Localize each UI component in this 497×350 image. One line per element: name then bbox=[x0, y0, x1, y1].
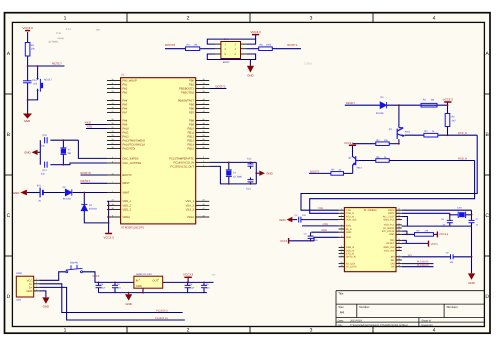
svg-text:7: 7 bbox=[112, 181, 113, 184]
svg-text:GND: GND bbox=[247, 74, 253, 78]
svg-text:C: C bbox=[7, 213, 11, 219]
svg-text:PA5: PA5 bbox=[122, 103, 127, 106]
svg-text:4: 4 bbox=[36, 288, 37, 291]
svg-text:PA11: PA11 bbox=[122, 131, 129, 134]
svg-text:4K7: 4K7 bbox=[452, 119, 457, 122]
svg-text:PB8: PB8 bbox=[189, 119, 195, 122]
svg-text:7: 7 bbox=[341, 230, 342, 233]
svg-text:VCC3.3: VCC3.3 bbox=[443, 98, 453, 102]
svg-text:PB6: PB6 bbox=[189, 107, 195, 110]
svg-text:9: 9 bbox=[112, 214, 113, 217]
svg-text:48: 48 bbox=[111, 207, 113, 210]
svg-text:VDDA: VDDA bbox=[122, 216, 130, 219]
svg-text:PA12: PA12 bbox=[122, 135, 129, 138]
svg-text:41: 41 bbox=[202, 102, 204, 105]
svg-text:GND: GND bbox=[346, 231, 352, 234]
svg-text:22: 22 bbox=[398, 229, 400, 232]
svg-text:GND_PLL: GND_PLL bbox=[383, 218, 395, 221]
svg-text:GND: GND bbox=[24, 151, 30, 155]
svg-text:14: 14 bbox=[398, 254, 400, 257]
svg-text:PC15/OSC32_OUT: PC15/OSC32_OUT bbox=[171, 165, 195, 168]
svg-text:BOOT1: BOOT1 bbox=[287, 43, 298, 47]
svg-text:F 14: F 14 bbox=[66, 28, 71, 31]
svg-text:RXD_N: RXD_N bbox=[458, 157, 467, 160]
svg-text:PL2303 D-: PL2303 D- bbox=[156, 309, 169, 312]
svg-text:26: 26 bbox=[202, 138, 204, 141]
svg-text:RESET: RESET bbox=[81, 179, 91, 183]
svg-text:PB0: PB0 bbox=[189, 79, 195, 82]
svg-text:VDD_3: VDD_3 bbox=[122, 208, 131, 211]
svg-text:VBAT: VBAT bbox=[122, 191, 129, 194]
svg-text:31: 31 bbox=[111, 126, 113, 129]
svg-text:45: 45 bbox=[202, 118, 204, 121]
svg-text:GND: GND bbox=[321, 229, 327, 232]
svg-text:TXD: TXD bbox=[318, 207, 323, 210]
svg-text:2: 2 bbox=[187, 328, 190, 334]
svg-text:3: 3 bbox=[139, 278, 140, 281]
svg-text:22: 22 bbox=[202, 130, 204, 133]
svg-text:43: 43 bbox=[202, 110, 204, 113]
svg-text:PA8: PA8 bbox=[122, 119, 127, 122]
svg-text:24: 24 bbox=[398, 222, 400, 225]
svg-text:PB14: PB14 bbox=[187, 143, 194, 146]
svg-text:35: 35 bbox=[202, 203, 204, 206]
svg-text:17: 17 bbox=[111, 110, 113, 113]
svg-text:13: 13 bbox=[398, 258, 400, 261]
svg-text:19: 19 bbox=[202, 82, 204, 85]
svg-text:16: 16 bbox=[398, 245, 400, 248]
svg-text:36: 36 bbox=[111, 203, 113, 206]
svg-text:D: D bbox=[7, 294, 11, 300]
svg-text:1: 1 bbox=[64, 328, 67, 334]
svg-text:GND: GND bbox=[468, 281, 474, 285]
svg-text:VSS_1: VSS_1 bbox=[186, 200, 195, 203]
svg-text:VCC5: VCC5 bbox=[280, 240, 288, 243]
svg-text:11: 11 bbox=[112, 82, 114, 85]
svg-text:29: 29 bbox=[111, 118, 113, 121]
svg-text:4: 4 bbox=[341, 217, 342, 220]
svg-text:VDD_1: VDD_1 bbox=[122, 200, 131, 203]
svg-text:100k: 100k bbox=[266, 44, 272, 47]
svg-text:GND: GND bbox=[125, 302, 131, 306]
svg-text:Date:: Date: bbox=[338, 319, 344, 322]
svg-text:1N4: 1N4 bbox=[96, 28, 101, 31]
svg-text:9014: 9014 bbox=[405, 130, 411, 133]
svg-text:38: 38 bbox=[111, 146, 113, 149]
svg-text:PB10: PB10 bbox=[187, 127, 194, 130]
svg-text:SW-PB: SW-PB bbox=[70, 262, 78, 265]
svg-text:22p: 22p bbox=[41, 173, 46, 176]
svg-text:23: 23 bbox=[202, 199, 204, 202]
svg-text:12: 12 bbox=[111, 86, 113, 89]
svg-text:GND: GND bbox=[26, 290, 32, 293]
svg-text:Q1706W_: Q1706W_ bbox=[49, 40, 60, 43]
svg-text:VCC3.3: VCC3.3 bbox=[439, 233, 449, 236]
svg-text:10uF: 10uF bbox=[100, 286, 106, 289]
svg-text:21: 21 bbox=[398, 232, 400, 235]
svg-text:BOOT0: BOOT0 bbox=[310, 170, 320, 173]
svg-text:DP: DP bbox=[391, 266, 395, 269]
svg-text:3: 3 bbox=[310, 328, 313, 334]
svg-text:2: 2 bbox=[187, 16, 190, 22]
svg-text:C:\Users\Admin\Desktop\ STM32: C:\Users\Admin\Desktop\ STM32f103c8t6.Sc… bbox=[350, 324, 409, 327]
svg-text:19: 19 bbox=[341, 261, 343, 264]
svg-text:A4: A4 bbox=[340, 311, 344, 315]
svg-text:6: 6 bbox=[112, 160, 113, 163]
svg-text:37: 37 bbox=[111, 142, 113, 145]
svg-text:OSC_IN/PD0: OSC_IN/PD0 bbox=[122, 157, 138, 160]
svg-text:RESET: RESET bbox=[346, 102, 355, 105]
svg-text:F 34: F 34 bbox=[56, 32, 61, 35]
svg-text:21: 21 bbox=[202, 126, 204, 129]
svg-text:30: 30 bbox=[398, 261, 400, 264]
svg-text:46: 46 bbox=[202, 122, 204, 125]
svg-text:Sheet of: Sheet of bbox=[421, 319, 431, 322]
svg-text:Number: Number bbox=[359, 305, 369, 309]
svg-text:6: 6 bbox=[341, 227, 342, 230]
svg-text:BOOT1: BOOT1 bbox=[216, 84, 227, 88]
svg-text:42: 42 bbox=[202, 106, 204, 109]
svg-text:PL2303 D+: PL2303 D+ bbox=[155, 317, 169, 320]
svg-text:33: 33 bbox=[111, 134, 113, 137]
svg-text:SHTD_N: SHTD_N bbox=[346, 256, 356, 259]
svg-text:2: 2 bbox=[158, 278, 159, 281]
svg-text:PA7: PA7 bbox=[122, 111, 127, 114]
svg-text:USB: USB bbox=[16, 299, 21, 302]
svg-text:18: 18 bbox=[398, 238, 400, 241]
svg-text:10uF: 10uF bbox=[189, 286, 195, 289]
svg-text:VDD_325: VDD_325 bbox=[346, 218, 357, 221]
svg-text:PA2: PA2 bbox=[122, 87, 127, 90]
svg-text:C: C bbox=[485, 213, 489, 219]
svg-text:BOOT0: BOOT0 bbox=[81, 171, 92, 175]
svg-text:3V: 3V bbox=[38, 200, 41, 203]
svg-text:14: 14 bbox=[111, 98, 113, 101]
svg-text:47: 47 bbox=[202, 207, 204, 210]
svg-text:16: 16 bbox=[111, 106, 113, 109]
svg-text:PB12: PB12 bbox=[187, 135, 194, 138]
svg-text:5: 5 bbox=[341, 223, 342, 226]
svg-text:GND: GND bbox=[279, 218, 285, 222]
svg-text:8M: 8M bbox=[68, 152, 71, 155]
svg-text:EE_DATA: EE_DATA bbox=[346, 266, 357, 269]
svg-text:VCC3.3: VCC3.3 bbox=[251, 30, 262, 34]
svg-text:8: 8 bbox=[341, 235, 342, 238]
svg-text:11: 11 bbox=[341, 251, 343, 254]
svg-text:23: 23 bbox=[398, 226, 400, 229]
svg-text:GND: GND bbox=[389, 233, 395, 236]
svg-text:PB5: PB5 bbox=[189, 103, 195, 106]
svg-text:PB4/JNTRST: PB4/JNTRST bbox=[178, 99, 194, 102]
svg-text:30: 30 bbox=[111, 122, 113, 125]
svg-text:1: 1 bbox=[36, 278, 37, 281]
svg-text:PB9: PB9 bbox=[189, 123, 195, 126]
svg-text:12: 12 bbox=[341, 254, 343, 257]
svg-text:29: 29 bbox=[398, 264, 400, 267]
svg-text:3: 3 bbox=[203, 160, 204, 163]
svg-text:USB1: USB1 bbox=[16, 272, 23, 275]
svg-text:PA1: PA1 bbox=[122, 83, 127, 86]
svg-text:VDD_3V3: VDD_3V3 bbox=[384, 249, 395, 252]
svg-text:PC13/TAMPER-RTC: PC13/TAMPER-RTC bbox=[169, 157, 194, 160]
svg-text:1: 1 bbox=[112, 190, 113, 193]
svg-text:1: 1 bbox=[64, 16, 67, 22]
svg-text:Title: Title bbox=[338, 292, 344, 296]
svg-text:32: 32 bbox=[111, 130, 113, 133]
svg-text:IN4148: IN4148 bbox=[376, 112, 384, 115]
svg-text:micap: micap bbox=[58, 37, 65, 40]
svg-text:3: 3 bbox=[310, 16, 313, 22]
svg-text:3: 3 bbox=[36, 285, 37, 288]
svg-text:44: 44 bbox=[111, 172, 113, 175]
svg-text:PC14/OSC32_IN: PC14/OSC32_IN bbox=[174, 161, 195, 164]
svg-text:2: 2 bbox=[341, 211, 342, 214]
svg-text:4: 4 bbox=[433, 328, 436, 334]
svg-text:27: 27 bbox=[202, 142, 204, 145]
svg-text:28: 28 bbox=[398, 208, 400, 211]
svg-text:10: 10 bbox=[111, 78, 113, 81]
svg-text:25: 25 bbox=[398, 217, 400, 220]
svg-text:GND: GND bbox=[24, 119, 30, 123]
svg-text:9014: 9014 bbox=[357, 167, 363, 170]
svg-text:22p: 22p bbox=[41, 145, 46, 148]
svg-text:GND: GND bbox=[43, 304, 49, 308]
svg-text:10: 10 bbox=[341, 248, 343, 251]
svg-text:4: 4 bbox=[203, 164, 204, 167]
svg-text:RESET: RESET bbox=[386, 242, 395, 245]
svg-text:PB2/BOOT1: PB2/BOOT1 bbox=[179, 87, 194, 90]
svg-text:GND: GND bbox=[266, 172, 272, 176]
svg-text:BT1: BT1 bbox=[37, 184, 42, 187]
svg-text:PA14/TCK/SWCLK: PA14/TCK/SWCLK bbox=[122, 143, 145, 146]
svg-text:C14: C14 bbox=[32, 79, 37, 82]
svg-text:26: 26 bbox=[398, 214, 400, 217]
svg-text:10: 10 bbox=[202, 214, 204, 217]
svg-text:1: 1 bbox=[341, 208, 342, 211]
svg-text:PA15/JTDI: PA15/JTDI bbox=[122, 147, 135, 150]
svg-text:VSS_3: VSS_3 bbox=[186, 208, 195, 211]
svg-text:PA9: PA9 bbox=[122, 123, 127, 126]
svg-text:104: 104 bbox=[33, 82, 38, 85]
svg-text:VDD: VDD bbox=[346, 236, 351, 239]
svg-text:20: 20 bbox=[202, 86, 204, 89]
svg-text:VCC3.3: VCC3.3 bbox=[183, 273, 194, 277]
svg-text:BOOT0: BOOT0 bbox=[122, 174, 132, 177]
svg-text:RXD: RXD bbox=[323, 223, 329, 226]
svg-text:4: 4 bbox=[433, 16, 436, 22]
svg-text:GND: GND bbox=[13, 191, 19, 195]
svg-text:15: 15 bbox=[398, 248, 400, 251]
svg-text:PB3/JTDO: PB3/JTDO bbox=[181, 91, 194, 94]
svg-text:PB1: PB1 bbox=[189, 83, 195, 86]
svg-text:17: 17 bbox=[398, 241, 400, 244]
svg-text:VCC3.3: VCC3.3 bbox=[23, 26, 34, 30]
svg-text:IN4148: IN4148 bbox=[63, 198, 71, 201]
svg-text:PB7: PB7 bbox=[189, 111, 195, 114]
svg-text:Revision: Revision bbox=[447, 305, 458, 309]
svg-text:27: 27 bbox=[398, 211, 400, 214]
svg-text:25: 25 bbox=[202, 134, 204, 137]
svg-text:VCC3.3: VCC3.3 bbox=[104, 235, 115, 239]
svg-text:RESET: RESET bbox=[52, 61, 62, 65]
svg-text:VSSA: VSSA bbox=[187, 216, 194, 219]
svg-text:JP1: JP1 bbox=[224, 38, 229, 41]
svg-text:28: 28 bbox=[202, 146, 204, 149]
svg-text:TXD: TXD bbox=[86, 125, 93, 129]
svg-text:OSC_OUT/PD1: OSC_OUT/PD1 bbox=[122, 162, 141, 165]
svg-text:32.768K: 32.768K bbox=[233, 176, 242, 179]
svg-text:AMS1117-3.3V: AMS1117-3.3V bbox=[136, 273, 152, 276]
svg-text:3: 3 bbox=[341, 214, 342, 217]
svg-text:DTR_N: DTR_N bbox=[458, 132, 467, 135]
svg-text:5: 5 bbox=[112, 156, 113, 159]
svg-text:PB11: PB11 bbox=[188, 131, 195, 134]
svg-text:PA10: PA10 bbox=[122, 127, 129, 130]
svg-text:15: 15 bbox=[111, 102, 113, 105]
svg-text:34: 34 bbox=[111, 138, 113, 141]
svg-text:2: 2 bbox=[36, 281, 37, 284]
svg-text:VDD_2: VDD_2 bbox=[122, 204, 131, 207]
svg-text:File:: File: bbox=[338, 324, 343, 327]
svg-text:NRST: NRST bbox=[122, 182, 130, 185]
svg-text:VCC5: VCC5 bbox=[431, 243, 438, 246]
svg-text:D: D bbox=[485, 294, 489, 300]
svg-text:24: 24 bbox=[111, 199, 113, 202]
svg-text:IN4148: IN4148 bbox=[89, 208, 97, 211]
svg-text:2015/5/29: 2015/5/29 bbox=[350, 319, 362, 322]
svg-text:13: 13 bbox=[111, 90, 113, 93]
svg-text:9: 9 bbox=[341, 245, 342, 248]
svg-text:BOOT0: BOOT0 bbox=[165, 43, 176, 47]
svg-text:D-: D- bbox=[29, 283, 32, 286]
svg-text:PA4: PA4 bbox=[122, 99, 127, 102]
svg-text:Drawn By:: Drawn By: bbox=[421, 324, 433, 327]
svg-text:GND: GND bbox=[136, 285, 142, 288]
svg-text:C12: C12 bbox=[247, 158, 252, 161]
svg-text:2 3 5 6: 2 3 5 6 bbox=[304, 63, 312, 66]
svg-text:RESET: RESET bbox=[44, 79, 53, 82]
svg-text:C10: C10 bbox=[43, 134, 48, 137]
svg-text:Size: Size bbox=[338, 305, 344, 309]
svg-text:STM32F103C8T6: STM32F103C8T6 bbox=[121, 226, 144, 230]
svg-text:PA6: PA6 bbox=[122, 107, 127, 110]
svg-text:VCC5: VCC5 bbox=[92, 275, 100, 278]
svg-text:PB15: PB15 bbox=[187, 147, 194, 150]
svg-text:PL2303 D+: PL2303 D+ bbox=[417, 264, 430, 267]
svg-text:PA0_WKUP: PA0_WKUP bbox=[122, 79, 137, 82]
svg-text:20: 20 bbox=[341, 264, 343, 267]
svg-text:PL-2303HX: PL-2303HX bbox=[364, 209, 377, 212]
svg-text:PA3: PA3 bbox=[122, 91, 127, 94]
svg-text:12M: 12M bbox=[457, 206, 461, 209]
svg-text:39: 39 bbox=[202, 90, 204, 93]
svg-text:PA13/TMS/SWDIO: PA13/TMS/SWDIO bbox=[122, 139, 145, 142]
svg-text:VSS_2: VSS_2 bbox=[186, 204, 195, 207]
svg-text:BOOT: BOOT bbox=[223, 61, 230, 64]
svg-text:18: 18 bbox=[202, 78, 204, 81]
svg-text:C13: C13 bbox=[246, 187, 251, 190]
svg-text:PB13: PB13 bbox=[187, 139, 194, 142]
svg-text:VCC3.3: VCC3.3 bbox=[344, 142, 354, 145]
svg-text:2: 2 bbox=[203, 156, 204, 159]
svg-text:40: 40 bbox=[202, 98, 204, 101]
